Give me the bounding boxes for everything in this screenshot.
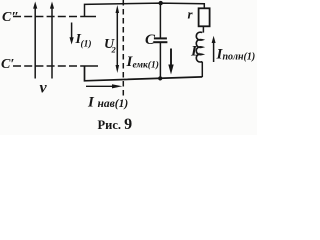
svg-text:I: I [87, 95, 95, 111]
svg-text:(1): (1) [81, 39, 92, 50]
svg-text:полн(1): полн(1) [223, 52, 256, 63]
svg-text:L: L [190, 44, 200, 60]
svg-text:C: C [145, 32, 156, 48]
svg-text:2: 2 [111, 45, 117, 55]
svg-text:емк(1): емк(1) [133, 60, 159, 71]
svg-text:C′: C′ [1, 57, 14, 72]
svg-text:Рис. 9: Рис. 9 [98, 116, 133, 133]
svg-text:C″: C″ [2, 10, 19, 25]
svg-text:v: v [40, 80, 48, 97]
svg-text:нав(1): нав(1) [98, 98, 129, 110]
